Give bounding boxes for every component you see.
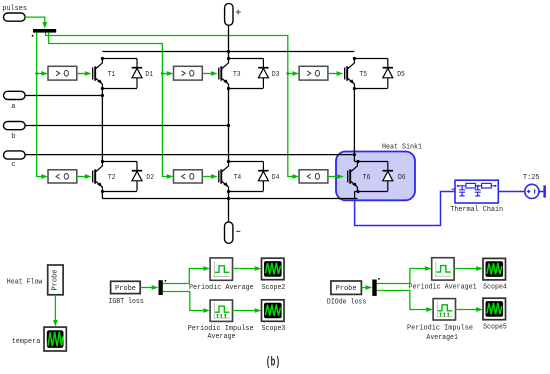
scope Scope3 [262, 300, 286, 333]
svg-text:T6: T6 [363, 174, 371, 182]
arrowhead into periodic average1 [425, 266, 432, 271]
wire periodic average to Scope2 [233, 268, 256, 270]
transistor T2 [93, 162, 116, 191]
arrowhead into comparator T5 [292, 71, 299, 76]
svg-text:Probe: Probe [115, 285, 136, 293]
wire comparator T1 to gate [77, 73, 86, 75]
thermal chain block U-thermal [450, 180, 503, 214]
svg-text:Scope4: Scope4 [483, 284, 507, 292]
wire T4 emitter to DC- rail [228, 192, 230, 199]
wire T4 emitter node [229, 191, 264, 193]
wire T2 emitter node [102, 191, 137, 193]
transistor T6 [348, 162, 371, 191]
thermal ground terminal [543, 185, 546, 197]
demux Demux (pulses) [33, 29, 56, 33]
svg-text:Probe: Probe [51, 269, 59, 290]
svg-text:Periodic Average1: Periodic Average1 [409, 284, 477, 292]
wire leg3 midpoint [353, 89, 355, 162]
arrowhead gate T1 [85, 71, 92, 76]
junction (gate leg3) [286, 72, 289, 75]
svg-text:(b): (b) [266, 356, 281, 370]
scope tempera [12, 327, 67, 351]
comparator >0 (T1) [48, 66, 77, 80]
wire gate signal leg3 (top horizontal) [46, 33, 294, 177]
arrowhead into demux DIOde loss [366, 285, 373, 290]
diode D5 [383, 59, 405, 88]
probe Probe (DIOde loss) [327, 281, 366, 307]
arrowhead gate T2 [85, 174, 92, 179]
wire probe to tempera scope [54, 295, 56, 321]
arrowhead gate T3 [211, 71, 218, 76]
arrowhead into comparator T6 [292, 174, 299, 179]
demux Demux2 (DIOde loss) [372, 280, 376, 296]
arrowhead into comparator T1 [41, 71, 48, 76]
wire leg1 midpoint [101, 89, 103, 162]
svg-text:D4: D4 [272, 174, 280, 182]
wire source to thermal ground (blue) [539, 191, 543, 193]
svg-text:Scope3: Scope3 [262, 325, 286, 333]
arrowhead into Scope5 [476, 307, 483, 312]
arrowhead into demux IGBT loss [152, 285, 159, 290]
wire leg2 midpoint [228, 89, 230, 162]
arrowhead gate T4 [211, 174, 218, 179]
node junction T4 collector [227, 160, 230, 163]
input port a [4, 91, 26, 111]
port dot of demux2 [378, 278, 380, 280]
svg-text:IGBT loss: IGBT loss [108, 298, 143, 306]
wire T6 collector node [354, 161, 387, 163]
node junction phase c / leg3 [353, 153, 356, 156]
port dot of demux1 [165, 280, 167, 282]
transistor T1 [93, 59, 116, 88]
svg-text:Scope5: Scope5 [483, 323, 507, 331]
wire T3 emitter node [229, 88, 264, 90]
scope Scope2 [262, 258, 286, 292]
comparator <0 (T6) [299, 170, 328, 183]
block Periodic Average [189, 258, 254, 292]
node junction DC+ rail / leg2 [227, 50, 230, 53]
wire phase a [25, 95, 102, 97]
svg-text:Heat Flow: Heat Flow [7, 278, 43, 286]
svg-text:D1: D1 [145, 71, 153, 79]
diode D4 [258, 162, 279, 191]
input port b [4, 122, 26, 141]
transistor T3 [219, 59, 241, 88]
comparator <0 (T2) [48, 170, 77, 183]
arrowhead into comparator T3 [167, 71, 174, 76]
junction (gate leg1) [35, 72, 38, 75]
heat sink Heat Sink1 [336, 144, 422, 201]
svg-text:tempera: tempera [12, 338, 41, 346]
wire branch to comparator T5 [288, 73, 294, 75]
svg-text:c: c [11, 161, 15, 169]
scope Scope4 [483, 258, 507, 291]
svg-text:T:25: T:25 [523, 174, 540, 182]
svg-text:T4: T4 [234, 174, 242, 182]
wire phase b [25, 125, 228, 127]
svg-text:T3: T3 [233, 71, 241, 79]
junction (gate leg2) [161, 72, 164, 75]
arrowhead into demux [42, 22, 47, 29]
wire DC- rail [102, 198, 357, 200]
arrowhead gate T6 [337, 174, 344, 179]
node junction T2 collector [101, 160, 104, 163]
svg-text:DIOde loss: DIOde loss [327, 299, 366, 307]
wire periodic impulse average to Scope3 [233, 310, 256, 312]
arrowhead into periodic average [203, 266, 210, 271]
wire T1 emitter node [102, 88, 137, 90]
arrowhead gate T5 [337, 71, 344, 76]
wire DC+ stem [228, 25, 230, 58]
wire comparator T4 to gate [202, 176, 211, 178]
node junction DC- rail / leg2 [227, 197, 230, 200]
wire thermal chain to temperature source (blue) [498, 191, 525, 193]
wire demux2 to periodic impulse average1 [377, 291, 427, 310]
wire comparator T3 to gate [202, 73, 211, 75]
svg-text:T1: T1 [108, 71, 116, 79]
svg-text:pulses: pulses [2, 5, 27, 13]
wire comparator T2 to gate [77, 176, 86, 178]
wire T3 collector node [229, 58, 264, 60]
wire demux1 to periodic average [163, 269, 204, 284]
block Periodic Average1 [409, 258, 477, 292]
wire demux2 to periodic average1 [377, 269, 426, 284]
probe Probe (Heat Flow) [7, 265, 63, 295]
wire gate signal leg2 (second horizontal) [49, 33, 169, 177]
node junction phase a / leg1 [101, 94, 104, 97]
wire T4 collector node [229, 161, 264, 163]
arrowhead into Scope3 [255, 308, 262, 313]
wire periodic impulse average1 to Scope5 [455, 309, 477, 311]
diode D6 [383, 162, 406, 191]
arrowhead into periodic impulse average1 [426, 307, 433, 312]
node junction T3 emitter [227, 87, 230, 90]
wire DC- stem [228, 199, 230, 222]
arrowhead into tempera scope [53, 320, 58, 327]
block Periodic Impulse Average [188, 300, 254, 341]
wire comparator T6 to gate [328, 176, 338, 178]
node junction T5 collector [353, 57, 356, 60]
wire comparator T5 to gate [328, 73, 337, 75]
svg-text:T5: T5 [359, 71, 367, 79]
node junction T3 collector [227, 57, 230, 60]
arrowhead into Scope2 [255, 266, 262, 271]
wire probe IGBT loss to demux [140, 287, 152, 289]
svg-text:D2: D2 [146, 174, 154, 182]
block Periodic Impulse Average1 [407, 299, 473, 343]
svg-text:Average1: Average1 [426, 334, 458, 342]
arrowhead into periodic impulse average [203, 308, 210, 313]
wire branch to comparator T3 [162, 73, 168, 75]
comparator >0 (T5) [299, 66, 328, 80]
comparator >0 (T3) [174, 66, 203, 80]
wire phase c [25, 154, 354, 156]
diode D1 [132, 59, 153, 88]
probe Probe (IGBT loss) [108, 281, 143, 306]
wire gate signal leg1 (vertical) [37, 33, 43, 177]
svg-text:a: a [11, 103, 15, 111]
node junction T1 emitter [101, 87, 104, 90]
wire branch to comparator T1 [37, 73, 43, 75]
wire T5 emitter node [354, 88, 387, 90]
node junction T2 emitter [101, 190, 104, 193]
wire T2 collector node [102, 161, 137, 163]
wire pulses to demux [25, 17, 45, 23]
svg-text:Periodic Impulse: Periodic Impulse [188, 325, 254, 333]
arrowhead into comparator T4 [167, 174, 174, 179]
wire demux1 to periodic impulse average [163, 292, 204, 311]
wire T6 emitter node [354, 191, 387, 193]
svg-text:Heat Sink1: Heat Sink1 [382, 144, 422, 152]
svg-text:D6: D6 [398, 174, 406, 182]
wire T2 emitter to DC- rail [101, 192, 103, 199]
wire probe DIOde loss to demux [361, 287, 366, 289]
svg-text:Scope2: Scope2 [262, 284, 286, 292]
temperature source T:25 [523, 174, 540, 198]
diode D2 [132, 162, 154, 191]
diode D3 [258, 59, 279, 88]
port dot of demux [32, 35, 34, 37]
wire T1 collector node [102, 58, 137, 60]
input port pulses [2, 5, 27, 21]
node junction T5 emitter [353, 87, 356, 90]
wire heat sink to thermal chain (blue) [355, 192, 455, 226]
node junction T1 collector [101, 57, 104, 60]
svg-text:Periodic Average: Periodic Average [189, 284, 254, 292]
svg-text:Thermal Chain: Thermal Chain [450, 206, 503, 214]
wire DC+ rail [102, 51, 354, 53]
svg-text:Probe: Probe [336, 285, 357, 293]
node junction T4 emitter [227, 190, 230, 193]
svg-text:T2: T2 [108, 174, 116, 182]
comparator <0 (T4) [174, 170, 203, 183]
node junction T6 collector [356, 160, 359, 163]
arrowhead into Scope4 [476, 266, 483, 271]
demux Demux1 (IGBT loss) [159, 280, 163, 295]
DC- port [225, 222, 241, 244]
wire T6 emitter to DC- rail [354, 192, 356, 199]
svg-text:Periodic Impulse: Periodic Impulse [407, 325, 473, 333]
transistor T4 [219, 162, 241, 191]
arrowhead into comparator T2 [41, 174, 48, 179]
svg-text:D5: D5 [397, 71, 405, 79]
svg-text:Average: Average [208, 333, 236, 341]
wire periodic average1 to Scope4 [454, 268, 477, 270]
DC+ port [225, 3, 241, 25]
input port c [4, 151, 26, 169]
svg-text:D3: D3 [272, 71, 280, 79]
node junction phase b / leg2 [227, 124, 230, 127]
transistor T5 [345, 59, 367, 88]
node junction T6 emitter [356, 190, 359, 193]
scope Scope5 [483, 298, 507, 331]
svg-text:b: b [11, 133, 15, 141]
wire T5 collector node [354, 58, 387, 60]
